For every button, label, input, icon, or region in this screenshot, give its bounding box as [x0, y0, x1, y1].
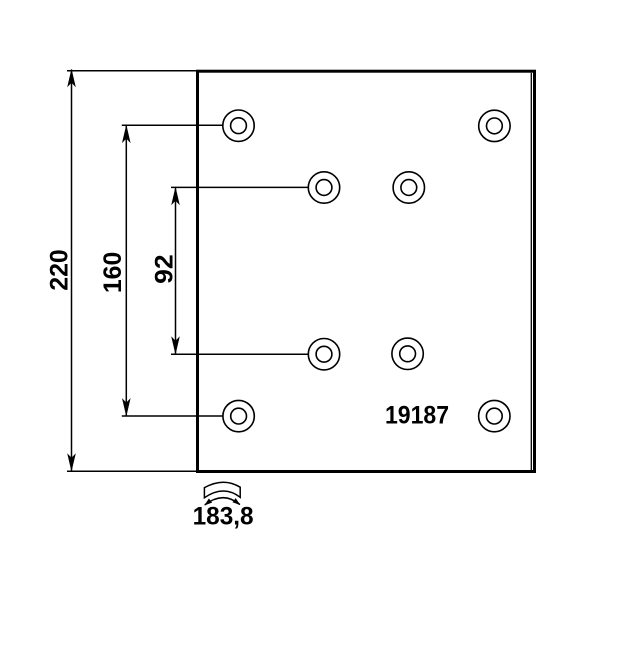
- label 160: [99, 252, 127, 294]
- hole H3 row2-left: [308, 172, 339, 203]
- extension line top (220): [67, 70, 196, 72]
- label 220: [46, 249, 74, 291]
- curvature dimension arc: [205, 498, 240, 505]
- arrow 160 bottom: [122, 398, 131, 417]
- arrow 220 bottom: [67, 453, 76, 472]
- dimension line 92: [175, 187, 177, 354]
- curvature symbol band: [204, 482, 240, 498]
- arrow 92 top: [171, 187, 180, 206]
- svg-text:160: 160: [99, 252, 127, 294]
- arrow 92 bottom: [171, 336, 180, 355]
- extension line bottom (220): [67, 470, 196, 472]
- extension line row1 (160 top): [122, 124, 223, 126]
- svg-text:183,8: 183,8: [193, 503, 254, 531]
- svg-text:220: 220: [46, 249, 74, 291]
- hole H5 row3-left: [308, 339, 339, 370]
- dimension line 220: [71, 70, 73, 472]
- arc length 183,8: [193, 503, 254, 531]
- svg-text:19187: 19187: [385, 402, 449, 430]
- arrow 160 top: [122, 125, 131, 144]
- hole H6 row3-right: [392, 338, 423, 369]
- extension line row3 (92 bottom): [171, 353, 308, 355]
- extension line row2 (92 top): [171, 186, 308, 188]
- label 92: [150, 254, 178, 284]
- hole H8 bottom-right: [479, 400, 510, 431]
- lining edge line (thin inner right): [530, 73, 532, 470]
- dimension line 160: [125, 125, 127, 416]
- hole H1 top-left: [223, 110, 254, 141]
- hole H4 row2-right: [393, 172, 424, 203]
- hole H7 bottom-left: [223, 400, 254, 431]
- hole H2 top-right: [479, 110, 510, 141]
- plate outline: [198, 71, 535, 471]
- arc arrow right: [233, 498, 241, 505]
- arrow 220 top: [67, 69, 76, 88]
- arc arrow left: [204, 499, 212, 506]
- extension line row4 (160 bottom): [122, 415, 223, 417]
- svg-text:92: 92: [150, 254, 178, 284]
- part number 19187: [385, 402, 449, 430]
